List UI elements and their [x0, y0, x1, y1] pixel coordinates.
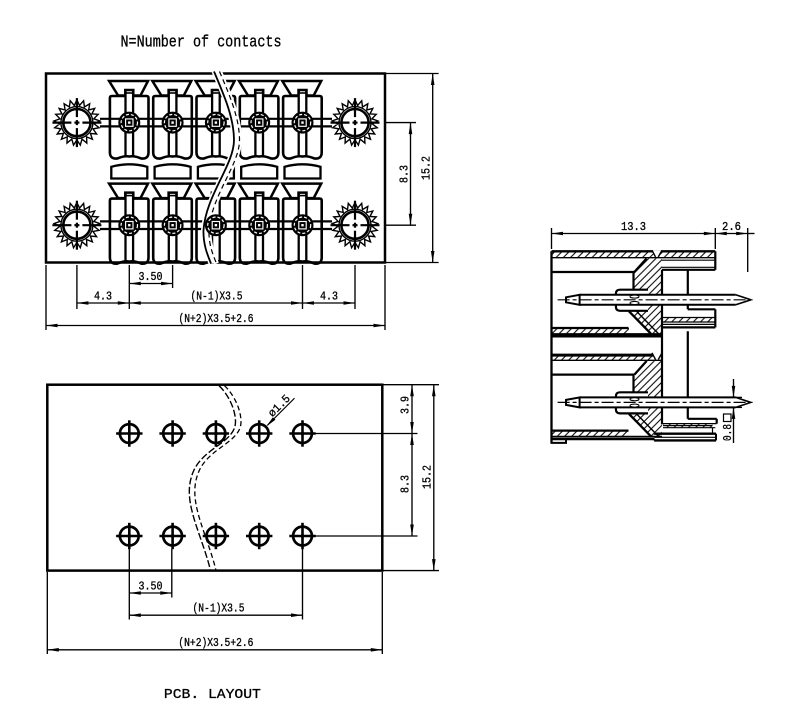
- wire screw row1 #1: [118, 112, 140, 134]
- drill hole row1 #1: [116, 420, 142, 446]
- side view: top flange strip: [662, 251, 715, 269]
- side view: upper contact section: [552, 250, 755, 336]
- wire screw row2 #1: [118, 214, 140, 236]
- wire screw row2 #4: [248, 214, 270, 236]
- pcb layout: board outline: [47, 385, 382, 571]
- drill hole row1 #3: [203, 420, 229, 446]
- extension lines right of top view: [385, 74, 439, 263]
- dimension 8.3 (top view): [398, 123, 412, 226]
- dimension 15.2 (top view): [421, 74, 435, 263]
- partition tab #2: [155, 164, 191, 178]
- contact cell row1 #3: [196, 81, 235, 159]
- svg-text:4.3: 4.3: [94, 291, 112, 304]
- wire clamp slot lines row2: [100, 221, 332, 229]
- side view: bottom mounting foot: [654, 419, 717, 441]
- knurled flange screw top-left: [52, 98, 101, 147]
- contact cell row2 #1: [109, 184, 148, 264]
- drill hole row2 #4: [246, 523, 272, 549]
- break line (top view): [203, 72, 239, 264]
- partition tab #4: [241, 164, 277, 178]
- side view: lower contact section: [552, 353, 755, 437]
- partition tab #5: [285, 164, 321, 178]
- dimension 4.3 right (top view): [303, 291, 356, 305]
- knurled flange screw bottom-right: [331, 201, 380, 250]
- extension lines below pcb view: [47, 549, 382, 654]
- wire screw row1 #5: [292, 112, 314, 134]
- dimension 3.9 (pcb view): [400, 385, 414, 434]
- extension lines right of pcb view: [316, 385, 440, 571]
- wire screw row2 #3: [205, 214, 227, 236]
- wire screw row2 #2: [162, 214, 184, 236]
- dimension 8.3 (pcb view): [400, 434, 414, 537]
- contact cell row1 #5: [282, 81, 321, 159]
- svg-text:4.3: 4.3: [320, 291, 338, 304]
- dimension 0.8 pin thickness (side view): [722, 379, 742, 443]
- wire screw row1 #2: [162, 112, 184, 134]
- hole diameter callout ø1.5: [266, 393, 295, 427]
- drill hole row2 #2: [159, 523, 185, 549]
- dimension 13.3 (side view): [552, 221, 716, 235]
- pcb layout: break line: [189, 386, 241, 570]
- svg-text:N=Number of contacts: N=Number of contacts: [121, 32, 282, 51]
- side view: left mounting foot: [552, 439, 567, 443]
- svg-text:3.50: 3.50: [139, 271, 163, 284]
- caption PCB. LAYOUT: [164, 688, 261, 703]
- wire screw row1 #4: [248, 112, 270, 134]
- dimension (N+2)X3.5+2.6 (top view): [46, 313, 385, 327]
- svg-text:3.50: 3.50: [139, 581, 163, 594]
- svg-text:(N+2)X3.5+2.6: (N+2)X3.5+2.6: [179, 313, 254, 326]
- knurled flange screw top-right: [331, 98, 380, 147]
- contact cell row1 #4: [239, 81, 278, 159]
- side view: middle flange strip: [662, 309, 715, 327]
- svg-text:PCB. LAYOUT: PCB. LAYOUT: [164, 688, 261, 703]
- svg-text:(N+2)X3.5+2.6: (N+2)X3.5+2.6: [178, 637, 253, 650]
- svg-text:0.8: 0.8: [722, 424, 735, 441]
- dimension 2.6 (side view): [715, 221, 754, 235]
- dimension 3.50 (top view): [129, 271, 172, 285]
- svg-text:3.9: 3.9: [400, 396, 413, 414]
- drill hole row2 #3: [203, 523, 229, 549]
- dimension (N+2)X3.5+2.6 (pcb view): [47, 637, 382, 651]
- contact cell row2 #2: [152, 184, 191, 264]
- dimension (N-1)X3.5 (pcb view): [129, 603, 302, 618]
- extension lines below top view: [46, 265, 385, 330]
- knurled flange screw bottom-left: [52, 201, 101, 250]
- side view: bottom edge of body: [552, 437, 655, 440]
- contact cell row1 #1: [109, 81, 148, 159]
- drill hole row1 #5: [289, 420, 315, 446]
- drill hole row1 #4: [246, 420, 272, 446]
- dimension (N-1)X3.5 (top view): [129, 291, 302, 305]
- svg-text:8.3: 8.3: [400, 475, 413, 493]
- contact cell row2 #5: [282, 184, 321, 264]
- contact cell row2 #3: [196, 184, 235, 264]
- side view: right wall lines: [662, 270, 688, 425]
- wire clamp slot lines row1: [100, 119, 332, 127]
- wire screw row2 #5: [292, 214, 314, 236]
- svg-text:(N-1)X3.5: (N-1)X3.5: [193, 603, 245, 616]
- extension lines above side view: [552, 228, 748, 272]
- svg-text:(N-1)X3.5: (N-1)X3.5: [191, 291, 243, 304]
- svg-text:8.3: 8.3: [398, 165, 411, 183]
- drill hole row2 #5: [289, 523, 315, 549]
- contact cell row2 #4: [239, 184, 278, 264]
- dimension 4.3 left (top view): [77, 291, 129, 305]
- dimension 15.2 (pcb view): [421, 385, 435, 571]
- side view: left outer edge: [550, 251, 552, 443]
- contact cell row1 #2: [152, 81, 191, 159]
- partition tab #1: [111, 164, 147, 178]
- svg-text:13.3: 13.3: [621, 221, 646, 234]
- drill hole row2 #1: [116, 523, 142, 549]
- top view: housing outline: [46, 74, 385, 263]
- title text N=Number of contacts: [121, 32, 282, 51]
- wire screw row1 #3: [205, 112, 227, 134]
- partition tab #3: [198, 164, 234, 178]
- dimension 3.50 (pcb view): [129, 581, 172, 595]
- drill hole row1 #2: [159, 420, 185, 446]
- svg-text:2.6: 2.6: [722, 221, 741, 234]
- svg-text:15.2: 15.2: [421, 465, 434, 489]
- svg-text:15.2: 15.2: [421, 156, 434, 180]
